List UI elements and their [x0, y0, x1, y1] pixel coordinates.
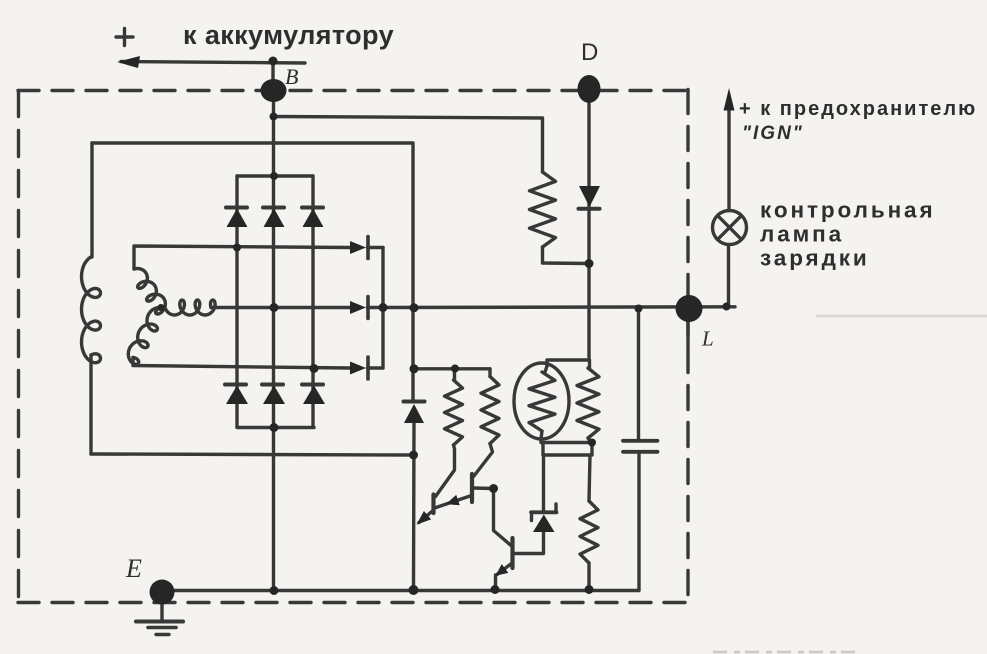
svg-text:"IGN": "IGN" — [742, 123, 804, 144]
svg-text:E: E — [125, 554, 142, 583]
svg-text:+ к предохранителю: + к предохранителю — [739, 98, 977, 120]
svg-text:лампа: лампа — [760, 222, 844, 247]
svg-text:к аккумулятору: к аккумулятору — [183, 20, 394, 50]
svg-text:D: D — [581, 39, 598, 66]
svg-text:B: B — [285, 64, 298, 89]
svg-text:L: L — [701, 327, 714, 351]
svg-text:контрольная: контрольная — [760, 198, 936, 223]
svg-text:зарядки: зарядки — [760, 246, 870, 271]
